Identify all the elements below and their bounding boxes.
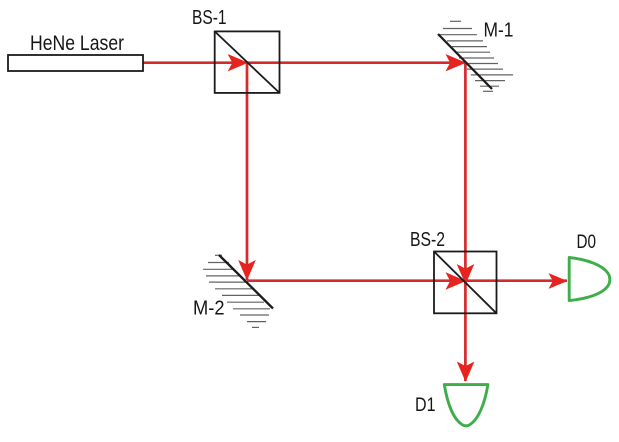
arrowhead into BS-2 horizontal bbox=[446, 272, 467, 289]
detector D1 bbox=[444, 385, 488, 426]
beam splitter BS-1 bbox=[215, 31, 280, 93]
wire: beam BS-1 down to M-2 bbox=[246, 63, 249, 280]
svg-text:D1: D1 bbox=[415, 395, 436, 416]
arrowhead into D1 bbox=[457, 362, 475, 383]
detector D0 bbox=[569, 258, 610, 301]
laser body bbox=[8, 55, 143, 71]
arrowhead into BS-1 bbox=[228, 54, 249, 71]
svg-text:M-1: M-1 bbox=[484, 19, 514, 42]
arrowhead into M-2 bbox=[238, 260, 256, 281]
arrowhead into BS-2 vertical bbox=[457, 264, 475, 285]
mirror M-2 bbox=[203, 255, 273, 327]
svg-text:BS-1: BS-1 bbox=[192, 7, 227, 29]
wire: beam laser to M-1 bbox=[143, 61, 465, 64]
wire: beam M-1 down to BS-2 bbox=[464, 63, 467, 283]
wire: beam M-2 to D0 bbox=[247, 279, 567, 282]
svg-text:HeNe Laser: HeNe Laser bbox=[30, 31, 124, 55]
wire: beam BS-2 down to D1 bbox=[464, 281, 467, 381]
svg-text:BS-2: BS-2 bbox=[410, 229, 445, 251]
svg-text:D0: D0 bbox=[577, 232, 597, 253]
beam splitter BS-2 bbox=[434, 252, 497, 314]
arrowhead into M-1 bbox=[446, 54, 467, 71]
svg-text:M-2: M-2 bbox=[193, 297, 225, 320]
arrowhead into D0 bbox=[549, 273, 568, 289]
mirror M-1 bbox=[438, 21, 513, 91]
